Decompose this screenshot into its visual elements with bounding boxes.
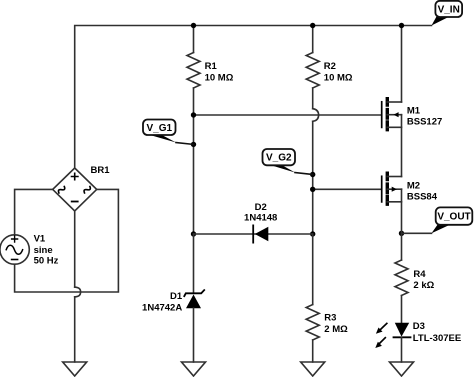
svg-text:V_OUT: V_OUT (437, 212, 470, 223)
svg-text:V_IN: V_IN (438, 5, 460, 16)
node label V_G2 pointer (295, 173, 313, 175)
ground under D3 (390, 362, 414, 376)
transistor M2 gate bar (381, 176, 383, 202)
svg-text:2 MΩ: 2 MΩ (324, 324, 348, 335)
diode D2 triangle (255, 227, 268, 242)
node label V_G2 box (263, 149, 296, 165)
node junction dot M2 gate wire (310, 187, 315, 192)
wire V_OUT tap (402, 232, 432, 234)
wire R1 bottom to node V_G1 rail (193, 88, 195, 234)
svg-text:BR1: BR1 (91, 165, 111, 176)
svg-text:50 Hz: 50 Hz (34, 256, 59, 267)
LED D3 cathode bar (394, 336, 411, 338)
node label V_G1 box (143, 120, 176, 136)
wire M1 source to M2 drain (401, 127, 403, 176)
node label V_OUT box (436, 207, 473, 224)
node junction dot V_G2 label attach (310, 172, 315, 177)
svg-text:D1: D1 (170, 291, 183, 302)
zener diode D1 bar with bent ends (184, 290, 204, 296)
svg-text:LTL-307EE: LTL-307EE (413, 333, 461, 344)
svg-text:R2: R2 (324, 61, 336, 72)
svg-text:R3: R3 (324, 313, 336, 324)
svg-text:2 kΩ: 2 kΩ (413, 280, 434, 291)
node label V_OUT pointer (432, 224, 452, 233)
node junction dot top R1 (191, 23, 196, 28)
ground under D1 (182, 362, 206, 376)
svg-text:sine: sine (34, 245, 53, 256)
svg-text:V_G1: V_G1 (147, 123, 173, 134)
svg-text:R1: R1 (205, 61, 218, 72)
svg-text:D3: D3 (413, 321, 425, 332)
BR1 right tilde (83, 185, 91, 194)
node junction dot V_G1 gate wire (191, 112, 196, 117)
transistor M1 body lead with arrow (387, 114, 401, 116)
resistor R4 (395, 233, 408, 322)
LED D3 emission arrow 1 (379, 323, 387, 331)
svg-text:D2: D2 (255, 202, 267, 213)
node label V_G1 pointer (176, 143, 194, 145)
V1 sine wave (6, 245, 22, 254)
resistor R1 (187, 53, 200, 89)
bridge rectifier BR1 diamond (53, 168, 97, 211)
wire R1 top lead (193, 26, 195, 53)
V1 plus mark (12, 236, 18, 242)
svg-text:10 MΩ: 10 MΩ (205, 72, 234, 83)
svg-text:V_G2: V_G2 (266, 153, 292, 164)
ground under BR1 (63, 362, 87, 376)
wire D2 junction down to D1 cathode (193, 234, 195, 293)
transistor M2 body lead with arrow (387, 188, 401, 190)
transistor M1 gate bar (381, 102, 383, 128)
voltage source V1 circle (0, 235, 29, 264)
svg-text:V1: V1 (34, 234, 46, 245)
wire R2 top lead (312, 26, 314, 53)
zener diode D1 triangle (186, 295, 201, 309)
node junction dot D2 left (191, 231, 196, 236)
transistor M1 channel segments (386, 99, 389, 130)
transistor M1 source lead and body tie (387, 115, 401, 128)
transistor M2 drain lead (387, 176, 401, 178)
diode D2 cathode bar (252, 225, 254, 242)
BR1 left tilde (57, 185, 65, 194)
wire gate of M1 from V_G1 node (194, 114, 382, 116)
wire D3 cathode to ground (401, 337, 403, 362)
node label V_IN box (435, 1, 462, 17)
wire hop over bottom loop (75, 287, 81, 297)
node junction dot V_G1 label attach (191, 142, 196, 147)
wire BR1 bottom to ground with hop (74, 211, 76, 362)
resistor R3 (306, 234, 319, 362)
ground under R3 (301, 362, 325, 376)
svg-text:BSS84: BSS84 (407, 191, 438, 202)
resistor R2 (306, 53, 319, 89)
transistor M2 channel segments (386, 173, 389, 204)
wire M2 source to V_OUT node (401, 202, 403, 234)
svg-text:R4: R4 (413, 269, 426, 280)
wire gate of M2 (313, 188, 382, 190)
wire M1 drain to top rail (401, 26, 403, 103)
node junction dot top R2 (310, 23, 315, 28)
svg-text:M1: M1 (407, 106, 421, 117)
svg-text:10 MΩ: 10 MΩ (324, 72, 353, 83)
LED D3 emission arrow 2 (378, 338, 385, 345)
wire D1 anode to ground (193, 308, 195, 362)
node label V_IN pointer (432, 17, 450, 26)
BR1 minus mark (72, 201, 78, 203)
svg-text:1N4148: 1N4148 (244, 213, 277, 224)
svg-text:BSS127: BSS127 (407, 116, 442, 127)
LED D3 triangle (395, 323, 409, 337)
BR1 plus mark (72, 173, 78, 179)
svg-text:M2: M2 (407, 180, 420, 191)
transistor M2 source lead and body tie (387, 189, 401, 202)
node junction dot top M1 drain (399, 23, 404, 28)
svg-text:1N4742A: 1N4742A (142, 302, 182, 313)
transistor M1 drain lead (387, 101, 401, 103)
node junction dot D2 right (310, 231, 315, 236)
diode D2 wire (194, 233, 313, 235)
wire BR1 left terminal to V1 (15, 189, 53, 234)
wire BR1 right terminal loop (15, 189, 119, 292)
wire top rail (75, 26, 432, 169)
wire R2 bottom with hop over gate wire (312, 88, 314, 234)
wire hop on R2 rail (313, 109, 319, 122)
node junction dot V_OUT (399, 231, 404, 236)
V1 minus mark (12, 259, 18, 261)
